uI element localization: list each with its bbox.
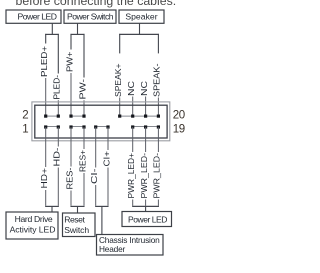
svg-text:CI+: CI+ <box>101 151 111 167</box>
label box: Chassis Intrusion Header <box>97 235 164 256</box>
header inner outline <box>35 105 167 138</box>
wire PWR_LED- to bracket <box>145 200 147 206</box>
plug link PWR_LED pins <box>133 126 159 128</box>
pin dot top row col8 <box>131 115 134 118</box>
wire PWR_LED- 2 from pin <box>157 127 159 152</box>
pin dot bottom row col9 <box>144 125 147 128</box>
wire PWR_LED+ from pin <box>132 127 134 152</box>
pin dot bottom row col4 <box>82 125 85 128</box>
wire NC pin18 <box>145 97 147 115</box>
wire PW+ to pin <box>70 73 72 115</box>
svg-text:1: 1 <box>22 123 28 135</box>
wire SPEAK- to pin <box>157 98 159 115</box>
wire PW- to pin <box>83 100 85 115</box>
pin dot bottom row col10 <box>157 125 160 128</box>
pin dot top row col4 <box>82 115 85 118</box>
svg-text:Activity LED: Activity LED <box>10 225 56 235</box>
wire PWR_LED- 2 to bracket <box>157 200 159 206</box>
wire PWR_LED+ to bracket <box>132 200 134 206</box>
pin dot bottom row col3 <box>69 125 72 128</box>
wire RES+ to bracket <box>83 173 85 206</box>
svg-text:Header: Header <box>99 244 126 254</box>
pin dot top row col2 <box>57 115 60 118</box>
wire HD+ to bracket <box>45 190 47 206</box>
svg-text:NC: NC <box>126 81 136 96</box>
bracket: RES pins to Reset Switch box <box>70 205 84 207</box>
pin dot bottom row col6 <box>106 125 109 128</box>
svg-text:Switch: Switch <box>64 225 89 235</box>
bracket: Power LED to pins PLED+/PLED- <box>51 23 53 34</box>
plug link RES pins <box>71 126 84 128</box>
wire PLED+ to pin <box>45 78 47 115</box>
svg-text:RES-: RES- <box>64 167 74 189</box>
wire CI+ to bracket <box>107 168 109 206</box>
svg-text:20: 20 <box>173 109 185 121</box>
pin dot bottom row col2 <box>57 125 60 128</box>
bracket: Power Switch to pins PW+/PW- <box>77 23 79 34</box>
plug link HD pins <box>46 126 59 128</box>
svg-text:PWR_LED-: PWR_LED- <box>139 153 149 199</box>
wire NC pin16 <box>132 97 134 115</box>
bracket: HD pins to Hard Drive Activity LED box <box>45 205 59 207</box>
wire SPEAK+ to pin <box>119 98 121 115</box>
svg-text:PWR_LED-: PWR_LED- <box>152 153 162 199</box>
label box: Power LED (bottom) <box>122 212 172 227</box>
svg-text:Hard Drive: Hard Drive <box>15 214 53 224</box>
label box: Power LED (top) <box>6 10 61 23</box>
label box: Speaker <box>119 10 164 23</box>
svg-text:before connecting the cables.: before connecting the cables. <box>16 0 177 8</box>
svg-text:Power LED: Power LED <box>128 214 167 224</box>
svg-text:PW+: PW+ <box>64 51 74 72</box>
pin dot top row col10 <box>157 115 160 118</box>
svg-text:PLED+: PLED+ <box>39 46 49 77</box>
pin dot top row col3 <box>69 115 72 118</box>
svg-text:Speaker: Speaker <box>125 12 157 22</box>
svg-text:SPEAK+: SPEAK+ <box>113 63 123 97</box>
wire CI- from pin <box>95 127 97 168</box>
svg-text:2: 2 <box>22 109 28 121</box>
svg-text:NC: NC <box>139 81 149 96</box>
svg-text:HD-: HD- <box>52 147 62 166</box>
pin dot top row col9 <box>144 115 147 118</box>
wire CI+ from pin <box>107 127 109 150</box>
svg-text:Power LED: Power LED <box>18 12 57 22</box>
svg-text:PLED-: PLED- <box>52 75 62 100</box>
svg-text:PWR_LED+: PWR_LED+ <box>126 153 136 199</box>
label box: Power Switch <box>64 10 116 23</box>
svg-text:RES+: RES+ <box>77 150 87 172</box>
svg-text:19: 19 <box>173 123 185 135</box>
pin dot bottom row col8 <box>131 125 134 128</box>
plug link PLED pins <box>46 115 59 117</box>
plug link SPEAK pins <box>120 115 159 117</box>
svg-text:PW-: PW- <box>77 79 87 100</box>
svg-text:Power Switch: Power Switch <box>67 12 114 22</box>
wire HD- from pin <box>57 127 59 147</box>
svg-text:Reset: Reset <box>64 214 85 224</box>
wire PLED- to pin <box>57 100 59 115</box>
bracket: PWR_LED pins to Power LED box <box>132 205 159 207</box>
label box: Hard Drive Activity LED <box>6 212 58 239</box>
bracket: CI pins to Chassis Intrusion Header box <box>95 205 108 207</box>
pin dot bottom row col1 <box>44 125 47 128</box>
header outer outline <box>32 102 170 141</box>
wire HD- to bracket <box>57 168 59 206</box>
pin dot top row col7 <box>118 115 121 118</box>
wire CI- to bracket <box>95 185 97 206</box>
label box: Reset Switch <box>63 213 96 237</box>
wire HD+ from pin <box>45 127 47 167</box>
wire RES- to bracket <box>70 191 72 206</box>
plug link PW pins <box>71 115 84 117</box>
plug link CI pins <box>96 126 108 128</box>
bracket: Speaker to pins SPEAK+/NC/NC/SPEAK- <box>139 23 141 34</box>
svg-text:HD+: HD+ <box>39 168 49 189</box>
svg-text:SPEAK-: SPEAK- <box>152 63 162 97</box>
svg-text:CI-: CI- <box>89 168 99 184</box>
wire RES+ from pin <box>83 127 85 149</box>
pin dot bottom row col5 <box>94 125 97 128</box>
wire PWR_LED- from pin <box>145 127 147 152</box>
pin dot top row col1 <box>44 115 47 118</box>
wire RES- from pin <box>70 127 72 167</box>
